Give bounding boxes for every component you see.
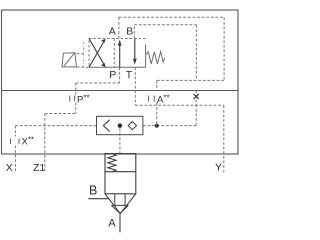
cartridge valve body: [105, 154, 136, 194]
label tick marks at A**: [149, 96, 155, 102]
junction node (dot): [155, 124, 159, 128]
pilot line: A loop bottom: [157, 79, 224, 81]
solenoid coil: [62, 53, 77, 67]
svg-text:A**: A**: [157, 93, 170, 105]
plugged port symbol x: [194, 94, 199, 99]
solenoid to valve link (top): [77, 53, 84, 55]
port A stub line: [119, 214, 121, 233]
svg-text:P: P: [109, 69, 116, 81]
poppet seat left diagonal: [105, 194, 120, 214]
svg-text:B: B: [126, 26, 133, 38]
port B stub line: [88, 198, 109, 200]
svg-text:X: X: [6, 162, 13, 174]
B-to-T flow arrow (right position): [134, 39, 136, 61]
return spring of pilot valve: [146, 52, 165, 64]
pilot valve position divider: [113, 39, 115, 68]
pilot line: X to shuttle: [15, 125, 96, 127]
shuttle valve right seat diamond: [128, 122, 136, 130]
manifold block outline: [2, 10, 239, 154]
poppet stem right: [124, 194, 126, 206]
pilot line: Z1 to P horizontal: [45, 113, 76, 115]
svg-text:P**: P**: [77, 93, 90, 105]
label tick marks at P**: [70, 96, 75, 102]
pilot line: A** upper drop: [156, 80, 158, 89]
poppet cone top: [111, 204, 128, 206]
poppet seat right diagonal: [120, 194, 136, 214]
pilot line: B loop top: [134, 24, 196, 26]
pilot valve V1 outline (top and left dashed): [89, 39, 146, 68]
block divider line: [2, 90, 239, 92]
svg-text:Z1: Z1: [33, 162, 45, 174]
pilot line: P horizontal: [76, 82, 120, 84]
poppet stem left: [114, 194, 116, 206]
pilot line: P** drop lower: [75, 103, 77, 114]
pilot line: A loop top: [119, 16, 224, 18]
solenoid diagonal: [64, 53, 74, 66]
label tick marks at X**: [11, 139, 19, 145]
pilot line: A riser: [118, 17, 120, 38]
pilot line: X drop upper: [14, 126, 16, 137]
poppet cone right: [120, 205, 128, 213]
pilot line: B loop right edge: [195, 25, 197, 81]
poppet cone left: [111, 205, 120, 213]
pilot line: X drop lower / port stub: [14, 146, 16, 174]
svg-text:A: A: [109, 26, 116, 38]
P-to-A flow arrow (right position): [119, 44, 121, 67]
crossed-arrow arrowheads: [101, 39, 106, 68]
pilot line: shuttle to plug junction: [143, 125, 196, 127]
svg-text:A: A: [108, 217, 116, 229]
pilot line: shuttle output to cartridge spring chamber: [119, 128, 121, 153]
pilot line: Y drop: [223, 105, 225, 172]
optional-frame tick line: [83, 42, 85, 67]
solenoid to valve link (bottom): [77, 66, 89, 68]
pilot line: plugged port drop: [195, 91, 197, 126]
cartridge closing spring: [108, 154, 116, 172]
pilot line: A** lower drop: [156, 103, 158, 126]
shuttle valve left seat chevron: [103, 120, 109, 132]
svg-text:B: B: [89, 183, 97, 197]
crossed-arrow flow path (left position): [89, 39, 104, 68]
svg-text:X**: X**: [22, 136, 35, 148]
pilot line: B riser: [133, 25, 135, 39]
pilot line: P riser: [119, 67, 121, 83]
pilot line: P** drop upper: [75, 83, 77, 95]
shuttle valve ball: [118, 123, 123, 128]
shuttle valve body: [97, 116, 143, 134]
svg-text:Y: Y: [215, 161, 222, 173]
pilot line: T riser down: [134, 67, 136, 105]
pilot line: T drain horizontal: [135, 104, 224, 106]
cartridge spring chamber divider: [105, 171, 136, 173]
pilot line: Z1 riser: [44, 114, 46, 171]
svg-text:T: T: [126, 69, 133, 81]
pilot valve V1 outline (bottom and right solid): [89, 45, 146, 68]
pilot line: A loop right edge: [223, 17, 225, 80]
